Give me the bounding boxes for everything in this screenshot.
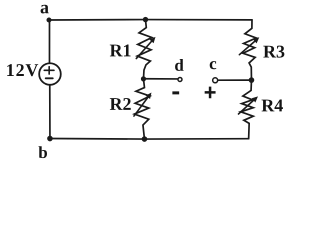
- svg-text:R4: R4: [261, 95, 283, 115]
- svg-text:a: a: [40, 0, 49, 17]
- svg-text:R1: R1: [109, 40, 131, 60]
- svg-text:12V: 12V: [6, 60, 39, 80]
- svg-text:R2: R2: [109, 94, 131, 114]
- svg-text:R3: R3: [263, 41, 285, 61]
- svg-text:b: b: [38, 143, 47, 162]
- svg-text:d: d: [174, 56, 184, 75]
- svg-text:c: c: [209, 54, 217, 73]
